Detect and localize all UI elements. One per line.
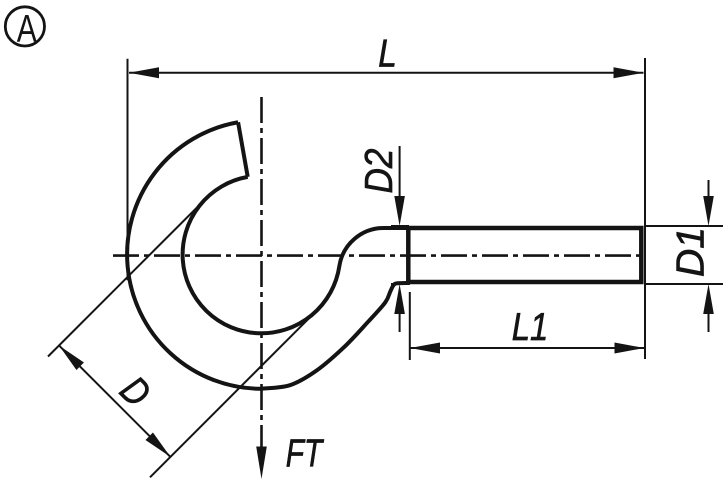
dimension D arrow lower (145, 432, 170, 456)
dimension L1 arrow right (615, 343, 645, 354)
dimension L extension line left (127, 59, 129, 280)
dimension D2 line lower (399, 310, 401, 332)
dimension D2 arrow lower (394, 284, 405, 314)
dimension D line (59, 345, 170, 456)
svg-text:A: A (17, 8, 37, 51)
svg-text:FT: FT (286, 432, 325, 475)
svg-text:L1: L1 (512, 306, 549, 349)
hook outer edge (127, 122, 410, 389)
horizontal centerline (113, 254, 644, 257)
svg-text:L: L (378, 33, 397, 76)
dimension D1 line lower (708, 310, 710, 332)
threaded shank rectangle (408, 228, 641, 282)
dimension D arrow upper (59, 345, 84, 369)
dimension D2 extension bottom (391, 283, 409, 285)
view label circle A (5, 7, 44, 46)
dimension L1 extension line left (409, 292, 411, 360)
hook inner edge (183, 177, 410, 333)
dimension D1 line upper (708, 180, 710, 200)
svg-text:D2: D2 (358, 148, 401, 193)
hook tip face (238, 122, 248, 177)
dimension D2 extension top (391, 225, 409, 227)
dimension L line (129, 72, 644, 74)
dimension L / L1 extension line right (644, 58, 646, 359)
dimension D1 extension top (646, 225, 723, 227)
dimension L arrow right (614, 67, 644, 78)
svg-text:D1: D1 (670, 227, 713, 277)
dimension D1 arrow upper (703, 196, 714, 226)
dimension L arrow left (129, 67, 159, 78)
dimension L1 arrow left (410, 343, 440, 354)
dimension D1 extension bottom (646, 283, 723, 285)
dimension D tangent line upper-left (48, 193, 212, 357)
vertical centerline (260, 97, 263, 447)
dimension D2 line upper (399, 146, 401, 200)
dimension D2 arrow upper (394, 196, 405, 226)
dimension D1 arrow lower (703, 284, 714, 314)
force arrow FT head (256, 447, 267, 480)
dimension D tangent line lower-right (150, 305, 322, 477)
dimension L1 line (410, 347, 645, 349)
